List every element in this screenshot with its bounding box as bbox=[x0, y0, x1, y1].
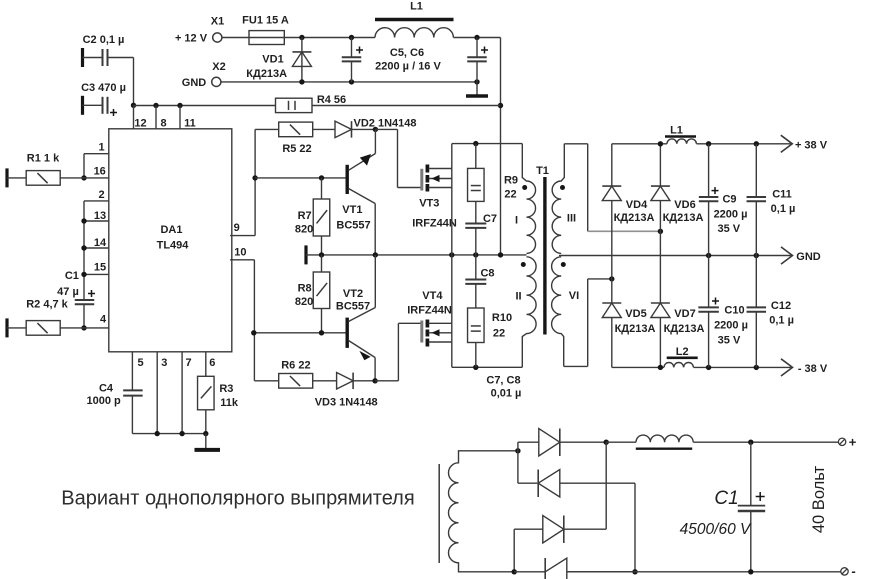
pin 11 bbox=[180, 106, 196, 130]
svg-text:C9: C9 bbox=[722, 194, 736, 206]
svg-text:IRFZ44N: IRFZ44N bbox=[412, 218, 457, 230]
wire VT1 base line bbox=[255, 175, 346, 180]
pin 15 bbox=[81, 262, 109, 278]
svg-text:R4 56: R4 56 bbox=[317, 94, 346, 106]
pin 1 bbox=[84, 142, 109, 154]
svg-text:C12: C12 bbox=[771, 300, 791, 312]
diode D2 bbox=[538, 470, 635, 572]
pin 4 wire bbox=[81, 314, 109, 331]
svg-text:35 V: 35 V bbox=[717, 223, 740, 235]
diode VD3 bbox=[315, 373, 378, 409]
transistor Q1 VT1 bbox=[336, 129, 375, 255]
diode D4 bbox=[514, 558, 638, 579]
svg-text:X2: X2 bbox=[212, 61, 225, 73]
label 40 Volt bbox=[810, 465, 828, 533]
svg-text:GND: GND bbox=[182, 77, 207, 89]
wire +38 rail bbox=[612, 141, 793, 146]
svg-text:C4: C4 bbox=[99, 383, 114, 395]
svg-text:VD7: VD7 bbox=[674, 308, 695, 320]
svg-text:2200 µ: 2200 µ bbox=[714, 320, 748, 332]
pin 7 bbox=[182, 352, 191, 434]
resistor R9 bbox=[468, 144, 518, 202]
svg-text:+ 38 V: + 38 V bbox=[795, 139, 828, 151]
resistor R4 bbox=[276, 94, 347, 113]
wire C2-C3 junction bbox=[131, 58, 136, 109]
pin 13 bbox=[81, 210, 109, 224]
capacitor C3 bbox=[81, 82, 126, 116]
svg-text:40 Вольт: 40 Вольт bbox=[810, 465, 828, 533]
pin 12 bbox=[134, 106, 147, 130]
wire bottom rail left bbox=[452, 365, 523, 370]
svg-text:КД213А: КД213А bbox=[663, 212, 704, 224]
resistor R8 bbox=[295, 255, 330, 333]
svg-text:0,01 µ: 0,01 µ bbox=[491, 388, 522, 400]
svg-text:C1: C1 bbox=[714, 488, 738, 509]
pin 3 bbox=[157, 352, 167, 434]
transformer T1 core bbox=[536, 165, 549, 335]
pin 2 wire bbox=[84, 189, 109, 300]
svg-text:VD5: VD5 bbox=[625, 308, 646, 320]
wire GND rail bbox=[559, 253, 793, 258]
capacitor C6 bbox=[467, 38, 488, 82]
capacitor C8 bbox=[465, 255, 494, 308]
terminal X2 bbox=[182, 61, 226, 89]
capacitor C10 bbox=[698, 256, 748, 368]
svg-text:T1: T1 bbox=[536, 165, 549, 177]
transistor Q3 VT3 MOSFET bbox=[412, 165, 457, 230]
svg-text:47 µ: 47 µ bbox=[57, 286, 79, 298]
capacitor C1 47u bbox=[57, 270, 95, 328]
winding II primary bbox=[515, 257, 536, 368]
capacitor C1 4500u bbox=[680, 442, 766, 572]
inductor bottom filter bbox=[636, 435, 693, 449]
diode VD7 bbox=[651, 231, 705, 367]
svg-text:L2: L2 bbox=[676, 346, 689, 358]
capacitor C7 bbox=[465, 201, 497, 255]
pin 9 wire bbox=[230, 129, 258, 235]
svg-text:1000 p: 1000 p bbox=[86, 395, 121, 407]
svg-text:- 38 V: - 38 V bbox=[798, 363, 828, 375]
svg-text:R6 22: R6 22 bbox=[281, 360, 310, 372]
bar terminal mid line bbox=[304, 245, 307, 264]
resistor R6 bbox=[254, 360, 336, 389]
svg-text:VD3 1N4148: VD3 1N4148 bbox=[315, 397, 378, 409]
capacitor C9 bbox=[699, 144, 748, 256]
svg-text:9: 9 bbox=[234, 222, 240, 234]
svg-text:11k: 11k bbox=[220, 397, 239, 409]
svg-text:L1: L1 bbox=[410, 1, 423, 13]
svg-text:GND: GND bbox=[796, 251, 821, 263]
wire drain-source bus bbox=[451, 144, 453, 368]
svg-text:VT1: VT1 bbox=[342, 204, 362, 216]
diode VD1 bbox=[246, 38, 311, 82]
inductor L2 output bbox=[664, 346, 698, 367]
svg-text:FU1 15 A: FU1 15 A bbox=[242, 15, 289, 27]
pin 6 bbox=[206, 352, 216, 377]
wire -38 rail bbox=[612, 365, 793, 370]
diode VD6 bbox=[651, 144, 704, 232]
op-amp U1 DA1 TL494 bbox=[109, 129, 232, 352]
svg-text:6: 6 bbox=[209, 357, 215, 369]
svg-text:VT2: VT2 bbox=[343, 288, 363, 300]
svg-text:1: 1 bbox=[98, 142, 104, 154]
svg-text:Вариант однополярного выпрямит: Вариант однополярного выпрямителя bbox=[61, 488, 414, 510]
svg-text:13: 13 bbox=[94, 210, 106, 222]
wire + rail bottom bbox=[606, 440, 838, 445]
capacitor C2 bbox=[83, 34, 134, 67]
pin 10 wire bbox=[230, 247, 254, 381]
terminal minus output bbox=[841, 564, 856, 579]
svg-text:DA1: DA1 bbox=[160, 224, 182, 236]
ground under C6 bbox=[466, 82, 488, 96]
inductor L1 output bbox=[665, 125, 696, 144]
svg-text:22: 22 bbox=[493, 328, 505, 340]
wire +12V line bbox=[284, 35, 375, 40]
svg-text:L1: L1 bbox=[670, 125, 683, 137]
svg-text:0,1 µ: 0,1 µ bbox=[771, 203, 796, 215]
winding VI secondary bbox=[552, 257, 580, 367]
wire X1 to fuse bbox=[222, 37, 249, 39]
ground symbol bbox=[195, 434, 221, 450]
svg-text:IRFZ44N: IRFZ44N bbox=[407, 304, 452, 316]
terminal plus output bbox=[838, 434, 856, 449]
svg-text:VD2 1N4148: VD2 1N4148 bbox=[354, 117, 417, 129]
node VD2-gate bbox=[373, 127, 422, 188]
svg-text:R7: R7 bbox=[298, 210, 312, 222]
label C7 C8 value bbox=[486, 375, 521, 400]
transistor Q4 VT4 MOSFET bbox=[407, 290, 452, 347]
svg-text:КД213А: КД213А bbox=[664, 323, 705, 335]
svg-text:C8: C8 bbox=[480, 268, 494, 280]
svg-text:12: 12 bbox=[134, 118, 146, 130]
fuse FU1 bbox=[242, 15, 289, 45]
wire L1 to corner bbox=[454, 35, 501, 40]
inductor L1 input bbox=[375, 1, 454, 38]
svg-text:2200 µ / 16 V: 2200 µ / 16 V bbox=[375, 61, 441, 73]
svg-text:TL494: TL494 bbox=[157, 240, 190, 252]
node T bus bbox=[515, 442, 539, 483]
svg-text:VT3: VT3 bbox=[419, 198, 439, 210]
resistor R10 bbox=[468, 308, 513, 367]
terminal X1 bbox=[175, 16, 224, 45]
svg-text:+: + bbox=[849, 434, 857, 449]
winding I primary bbox=[515, 144, 536, 254]
svg-text:C10: C10 bbox=[724, 305, 744, 317]
wire winding VI bottom link bbox=[564, 276, 615, 366]
svg-text:I: I bbox=[515, 215, 518, 227]
svg-text:R10: R10 bbox=[492, 312, 512, 324]
wire +12V feed vertical bbox=[498, 38, 503, 255]
wire - rail bottom bbox=[567, 569, 841, 574]
wire VT2 base line bbox=[251, 330, 346, 335]
capacitor C12 bbox=[747, 256, 794, 368]
svg-text:BC557: BC557 bbox=[336, 220, 370, 232]
svg-text:R8: R8 bbox=[298, 283, 312, 295]
arrow GND bbox=[781, 247, 821, 264]
svg-text:+ 12 V: + 12 V bbox=[175, 33, 208, 45]
svg-text:R1 1 k: R1 1 k bbox=[27, 153, 60, 165]
pin 14 bbox=[81, 237, 109, 251]
svg-text:35 V: 35 V bbox=[718, 335, 741, 347]
svg-text:КД213А: КД213А bbox=[246, 68, 287, 80]
svg-text:820: 820 bbox=[295, 296, 313, 308]
wire GND line bbox=[221, 79, 480, 84]
svg-text:C3 470 µ: C3 470 µ bbox=[81, 82, 126, 94]
svg-text:VD6: VD6 bbox=[674, 199, 695, 211]
capacitor C4 bbox=[86, 383, 142, 434]
wire mid rail bbox=[306, 252, 527, 257]
svg-text:VD4: VD4 bbox=[626, 199, 648, 211]
svg-text:X1: X1 bbox=[211, 16, 224, 28]
ground line pins bbox=[132, 431, 208, 436]
transistor Q2 VT2 bbox=[336, 255, 375, 381]
winding III secondary bbox=[552, 144, 576, 254]
svg-text:10: 10 bbox=[234, 247, 246, 259]
svg-text:C2 0,1 µ: C2 0,1 µ bbox=[83, 34, 125, 46]
svg-text:16: 16 bbox=[94, 166, 106, 178]
svg-text:11: 11 bbox=[184, 118, 196, 130]
svg-text:7: 7 bbox=[185, 357, 191, 369]
svg-text:C5, C6: C5, C6 bbox=[390, 47, 424, 59]
svg-text:КД213А: КД213А bbox=[615, 323, 656, 335]
arrow +38V bbox=[781, 135, 828, 152]
svg-text:II: II bbox=[515, 291, 521, 303]
svg-text:8: 8 bbox=[160, 118, 166, 130]
svg-text:R3: R3 bbox=[219, 383, 233, 395]
svg-text:3: 3 bbox=[161, 357, 167, 369]
arrow -38V bbox=[781, 359, 828, 376]
diode VD2 bbox=[335, 117, 417, 137]
svg-text:C1: C1 bbox=[65, 270, 79, 282]
capacitor C5 bbox=[342, 38, 442, 82]
pin 16 wire bbox=[81, 154, 109, 181]
wire winding III top link bbox=[564, 144, 663, 234]
diode D3 bbox=[512, 442, 607, 574]
resistor R7 bbox=[295, 178, 330, 255]
svg-text:820: 820 bbox=[295, 224, 313, 236]
resistor R2 bbox=[7, 299, 84, 338]
svg-text:5: 5 bbox=[137, 357, 143, 369]
svg-text:R5 22: R5 22 bbox=[282, 143, 311, 155]
resistor R3 bbox=[198, 376, 239, 433]
transformer core bottom bbox=[438, 464, 440, 563]
svg-text:C7: C7 bbox=[483, 213, 497, 225]
caption text bbox=[61, 488, 414, 510]
svg-text:R9: R9 bbox=[504, 175, 518, 187]
svg-text:15: 15 bbox=[94, 262, 106, 274]
svg-text:4500/60 V: 4500/60 V bbox=[680, 521, 752, 538]
svg-text:VD1: VD1 bbox=[262, 54, 283, 66]
capacitor C11 bbox=[747, 144, 796, 256]
node VD3-gate bbox=[372, 323, 421, 383]
diode D1 bbox=[539, 429, 609, 457]
resistor R5 bbox=[255, 122, 335, 155]
svg-text:14: 14 bbox=[94, 237, 107, 249]
svg-text:C7, C8: C7, C8 bbox=[486, 375, 520, 387]
wire VCC pins line bbox=[134, 103, 501, 108]
svg-text:2: 2 bbox=[98, 189, 104, 201]
svg-text:C11: C11 bbox=[772, 189, 792, 201]
diode VD4 bbox=[602, 144, 654, 279]
svg-text:КД213А: КД213А bbox=[614, 212, 655, 224]
svg-text:-: - bbox=[851, 564, 855, 579]
svg-text:2200 µ: 2200 µ bbox=[714, 209, 748, 221]
svg-text:0,1 µ: 0,1 µ bbox=[769, 315, 794, 327]
svg-text:III: III bbox=[567, 213, 576, 225]
diode VD5 bbox=[602, 279, 655, 368]
svg-text:R2 4,7 k: R2 4,7 k bbox=[26, 299, 68, 311]
wire top rail left bbox=[452, 141, 523, 146]
svg-text:VI: VI bbox=[569, 290, 579, 302]
winding bottom transformer bbox=[449, 451, 518, 572]
pin 8 bbox=[156, 106, 167, 130]
svg-text:4: 4 bbox=[100, 314, 107, 326]
resistor R1 bbox=[7, 153, 84, 188]
svg-text:BC557: BC557 bbox=[336, 301, 370, 313]
svg-text:22: 22 bbox=[504, 189, 516, 201]
svg-text:VT4: VT4 bbox=[422, 290, 443, 302]
pin 5 bbox=[132, 352, 143, 391]
